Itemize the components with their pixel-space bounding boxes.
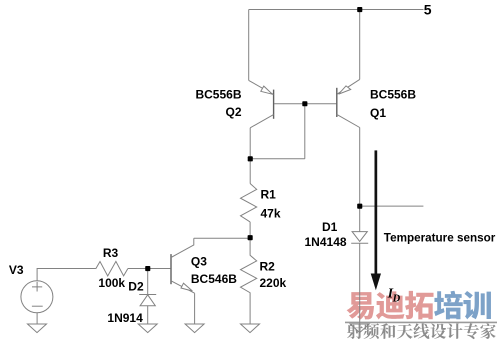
transistor Q2 collector diagonal bbox=[250, 115, 273, 128]
transistor Q1 base bar bbox=[336, 88, 338, 117]
watermark char 迪 bbox=[376, 291, 405, 319]
transistor Q3 emitter arrow bbox=[181, 283, 192, 291]
svg-text:D1: D1 bbox=[322, 220, 338, 234]
svg-text:BC556B: BC556B bbox=[195, 88, 241, 102]
wire: Q3 emitter to ground bbox=[194, 293, 196, 324]
svg-text:1N914: 1N914 bbox=[107, 311, 143, 325]
junction dot R3/D2/Q3 bbox=[145, 266, 150, 271]
watermark char 计 bbox=[447, 323, 463, 338]
wire: V3 to ground bbox=[36, 313, 38, 324]
junction dot R1/R2 bbox=[248, 235, 253, 240]
wire: Q1 collector down to D1 bbox=[359, 128, 361, 232]
wire: D2 junction down bbox=[147, 269, 149, 295]
wire: Q2 base to Q1 base bbox=[274, 103, 336, 105]
diode D1 cathode bar bbox=[351, 242, 368, 244]
svg-text:100k: 100k bbox=[98, 276, 125, 290]
svg-text:R2: R2 bbox=[260, 259, 276, 273]
junction dot D1 top bbox=[357, 204, 362, 209]
wire: R3 to D2/Q3 bbox=[128, 268, 170, 270]
wire: Q2 emitter vertical bbox=[248, 10, 250, 81]
current label I_D bbox=[387, 286, 401, 304]
ground under V3 bbox=[28, 324, 47, 333]
resistor R3 zigzag bbox=[96, 261, 128, 276]
svg-text:Q2: Q2 bbox=[225, 105, 241, 119]
svg-text:BC556B: BC556B bbox=[370, 87, 416, 101]
transistor Q2 emitter diagonal bbox=[249, 80, 274, 94]
svg-text:R1: R1 bbox=[261, 187, 277, 201]
junction dot base wire bbox=[302, 101, 307, 106]
watermark char 家 bbox=[480, 323, 495, 339]
watermark char 射 bbox=[347, 323, 363, 339]
watermark char 天 bbox=[397, 324, 413, 339]
diode D2 cathode bar bbox=[139, 294, 156, 296]
wire: node stub right of D1 junction bbox=[360, 205, 424, 207]
watermark char 训 bbox=[463, 291, 491, 319]
svg-text:R3: R3 bbox=[103, 246, 119, 260]
watermark big text 易迪拓 (red) + 培训 (blue) bbox=[347, 291, 491, 320]
watermark char 培 bbox=[434, 291, 463, 320]
temperature sensor arrow bbox=[371, 150, 381, 290]
svg-text:1N4148: 1N4148 bbox=[305, 235, 347, 249]
ground under D2 bbox=[138, 324, 157, 333]
diode D2 triangle (pointing up) bbox=[140, 295, 155, 306]
svg-text:5: 5 bbox=[424, 2, 432, 18]
wire: base tie vertical bbox=[304, 104, 306, 159]
ground under D1 bbox=[350, 324, 369, 333]
wire: V3 to R3 bbox=[37, 269, 96, 281]
transistor Q3 collector diagonal bbox=[171, 238, 194, 257]
wire: base tie horizontal to collector bbox=[250, 158, 305, 160]
transistor Q3 emitter diagonal bbox=[171, 281, 195, 293]
svg-text:BC546B: BC546B bbox=[191, 272, 237, 286]
svg-text:47k: 47k bbox=[261, 206, 281, 220]
svg-text:D: D bbox=[392, 294, 401, 305]
junction dot rail/Q1 bbox=[357, 7, 362, 12]
wire: R1 to junction bbox=[249, 222, 251, 238]
transistor Q2 base bar bbox=[273, 90, 275, 119]
watermark char 线 bbox=[413, 323, 429, 339]
transistor Q1 emitter diagonal bbox=[337, 79, 360, 94]
watermark char 和 bbox=[380, 323, 395, 339]
wire: Q2 collector down to R1 bbox=[249, 128, 251, 184]
wire: collector rail Q3 to R1/R2 junction bbox=[194, 237, 250, 239]
transistor Q3 base bar bbox=[170, 254, 172, 284]
watermark char 拓 bbox=[405, 291, 433, 320]
V3 plus sign bbox=[32, 282, 42, 292]
svg-text:V3: V3 bbox=[9, 263, 24, 277]
voltage source V3 circle bbox=[21, 281, 53, 313]
svg-text:Q1: Q1 bbox=[370, 106, 386, 120]
wire: D2 to ground bbox=[147, 306, 149, 324]
V3 minus sign bbox=[32, 305, 43, 307]
watermark small text (second line) bbox=[347, 323, 496, 339]
watermark rule line bbox=[345, 321, 497, 323]
resistor R1 zigzag bbox=[241, 184, 257, 222]
wire: +5V top rail bbox=[249, 9, 424, 11]
svg-text:220k: 220k bbox=[260, 276, 287, 290]
junction dot Q2 collector tie bbox=[248, 156, 253, 161]
watermark char 易 bbox=[347, 292, 374, 320]
wire: Q1 emitter vertical bbox=[359, 10, 361, 80]
WATERMARK (under schematic) bbox=[345, 291, 497, 339]
svg-text:Q3: Q3 bbox=[191, 255, 207, 269]
wire: D1 to ground bbox=[359, 243, 361, 324]
svg-text:D2: D2 bbox=[128, 280, 144, 294]
resistor R2 zigzag bbox=[241, 238, 257, 324]
transistor Q1 emitter arrow bbox=[339, 86, 351, 94]
svg-text:Temperature sensor: Temperature sensor bbox=[384, 232, 496, 245]
ground under R2 bbox=[241, 324, 260, 333]
watermark char 设 bbox=[430, 323, 446, 338]
transistor Q1 collector diagonal bbox=[337, 114, 360, 127]
ground under Q3 bbox=[185, 324, 204, 333]
diode D1 triangle bbox=[352, 232, 367, 242]
transistor Q2 emitter arrow bbox=[261, 86, 273, 94]
watermark char 专 bbox=[464, 323, 479, 339]
watermark char 频 bbox=[364, 323, 380, 339]
